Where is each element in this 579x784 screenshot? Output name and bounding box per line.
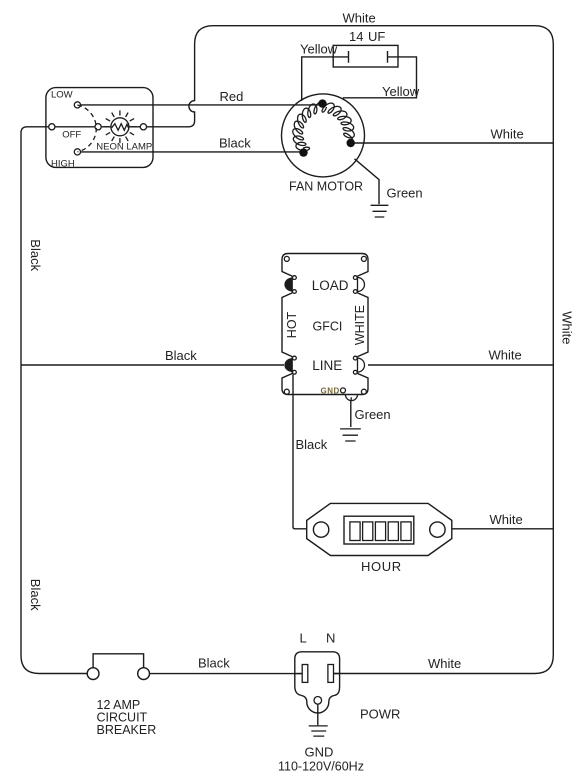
- capacitor C1 right plate: [388, 51, 399, 63]
- wire lamp to right terminal: [129, 126, 140, 128]
- GFCI LINE white terminal: [353, 356, 364, 374]
- svg-text:Red: Red: [220, 89, 244, 104]
- wire common to center terminal: [55, 126, 95, 128]
- wire white: GFCI to right bus: [368, 364, 553, 366]
- svg-text:POWR: POWR: [360, 707, 400, 722]
- hour meter display frame: [344, 516, 414, 544]
- hour meter digit 5: [401, 522, 411, 541]
- GFCI U1 body: [282, 254, 368, 395]
- svg-text:White: White: [343, 11, 376, 26]
- svg-text:UF: UF: [368, 29, 385, 44]
- hour meter right eyelet: [430, 522, 445, 537]
- wire yellow: capacitor left lead down to motor: [302, 57, 334, 101]
- wire black left bus: switch left terminal down to breaker: [21, 127, 87, 674]
- motor terminal right: [347, 139, 355, 147]
- motor winding coil left: [293, 102, 325, 151]
- GFCI gnd terminal screw: [341, 388, 346, 393]
- svg-text:HOUR: HOUR: [361, 559, 402, 574]
- hour meter P1 octagon: [307, 503, 452, 555]
- motor terminal lower-left: [299, 148, 307, 156]
- svg-text:14: 14: [349, 29, 363, 44]
- plug wire across: [295, 673, 340, 675]
- wire white: hour meter to right bus: [452, 528, 554, 530]
- capacitor C1 14UF box: [333, 45, 398, 67]
- svg-text:Black: Black: [198, 656, 230, 671]
- GFCI corner screw bottom-right: [361, 389, 366, 394]
- ground GFCI: [340, 429, 361, 441]
- plug slot L: [302, 665, 308, 683]
- hour meter digit 2: [363, 522, 373, 541]
- svg-text:Green: Green: [355, 407, 391, 422]
- GFCI LINE hot terminal (dark screw): [284, 356, 296, 374]
- wire green: motor to ground: [355, 159, 380, 205]
- svg-text:HIGH: HIGH: [51, 159, 75, 170]
- svg-text:LOW: LOW: [51, 90, 73, 101]
- svg-text:LOAD: LOAD: [312, 278, 349, 293]
- svg-text:GND: GND: [305, 745, 334, 760]
- svg-text:White: White: [428, 656, 461, 671]
- GFCI LOAD white terminal: [353, 276, 364, 294]
- circuit breaker bridge: [93, 654, 144, 668]
- neon lamp rays: [104, 110, 137, 143]
- svg-text:NEON LAMP: NEON LAMP: [96, 142, 152, 153]
- wire green: GFCI gnd to ground: [350, 401, 352, 428]
- hour meter digit 4: [388, 522, 398, 541]
- motor winding coil right: [322, 103, 354, 145]
- svg-text:Black: Black: [165, 348, 197, 363]
- svg-text:OFF: OFF: [62, 130, 81, 141]
- svg-text:Yellow: Yellow: [300, 42, 338, 57]
- switch terminal common left: [49, 124, 55, 130]
- svg-text:Black: Black: [28, 239, 43, 271]
- wire black: GFCI LINE down to hour meter: [293, 375, 307, 529]
- GFCI corner screw top-right: [361, 256, 366, 261]
- svg-text:110-120V/60Hz: 110-120V/60Hz: [278, 760, 364, 774]
- svg-text:L: L: [300, 631, 307, 646]
- neon lamp zigzag: [112, 124, 129, 131]
- ground plug: [309, 726, 328, 736]
- GFCI gnd hook: [345, 395, 357, 401]
- svg-text:White: White: [560, 311, 575, 344]
- wire yellow: capacitor right lead down and left to motor: [343, 57, 417, 98]
- hour meter digit 3: [375, 522, 385, 541]
- ground motor: [371, 205, 389, 217]
- switch terminal HIGH: [74, 149, 80, 155]
- switch wiper dashed arc: [77, 105, 96, 152]
- svg-text:GND: GND: [321, 387, 340, 396]
- wire red: switch LOW terminal to motor top terminal: [81, 104, 319, 106]
- wire plug ground lead: [317, 704, 319, 725]
- svg-text:Black: Black: [219, 136, 251, 151]
- svg-text:N: N: [326, 631, 335, 646]
- svg-text:WHITE: WHITE: [353, 305, 367, 345]
- hour meter left eyelet: [313, 522, 328, 537]
- svg-text:LINE: LINE: [312, 358, 342, 373]
- hour meter digit 1: [350, 522, 360, 541]
- power plug P2 body: [295, 652, 340, 713]
- svg-text:White: White: [491, 127, 524, 142]
- switch terminal LOW: [74, 102, 80, 108]
- svg-text:White: White: [489, 348, 522, 363]
- svg-text:Yellow: Yellow: [382, 84, 420, 99]
- circuit breaker CB1 left pole: [87, 668, 99, 680]
- svg-text:White: White: [490, 512, 523, 527]
- capacitor C1 left plate: [333, 51, 348, 63]
- wire black: breaker to plug: [150, 673, 303, 675]
- wire white top bus: lamp terminal up over red, across top, down right side, to plug: [147, 26, 554, 674]
- plug ground pin: [314, 697, 322, 705]
- GFCI corner screw bottom-left: [284, 389, 289, 394]
- motor terminal top: [318, 99, 326, 107]
- fan motor M1 circle: [282, 94, 365, 177]
- wire black: switch HIGH terminal to motor lower-left terminal: [81, 151, 302, 153]
- svg-text:GFCI: GFCI: [313, 320, 343, 334]
- wire black: left bus to GFCI LINE hot: [21, 364, 284, 366]
- plug slot N: [328, 665, 334, 683]
- neon lamp NE1 circle: [111, 118, 129, 136]
- svg-text:FAN MOTOR: FAN MOTOR: [289, 180, 363, 194]
- GFCI LOAD hot terminal (dark screw): [284, 276, 296, 294]
- svg-text:Black: Black: [28, 579, 43, 611]
- wire white: motor right terminal to right bus: [354, 142, 553, 144]
- svg-text:HOT: HOT: [285, 311, 299, 338]
- svg-text:BREAKER: BREAKER: [97, 723, 157, 737]
- circuit breaker CB1 right pole: [138, 668, 150, 680]
- svg-text:Green: Green: [387, 186, 423, 201]
- GFCI corner screw top-left: [284, 256, 289, 261]
- wire center terminal to lamp: [101, 126, 111, 128]
- switch box S1: [46, 88, 153, 168]
- switch lamp right terminal: [140, 124, 146, 130]
- svg-text:Black: Black: [296, 437, 328, 452]
- switch terminal center: [95, 124, 101, 130]
